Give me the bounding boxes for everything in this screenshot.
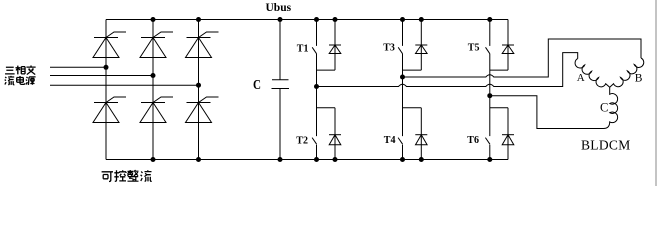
node top bus x=421.3 bbox=[419, 17, 424, 22]
diode antiparallel with T1 bbox=[329, 45, 341, 54]
node T1 midpoint bbox=[314, 84, 319, 89]
node top bus x=198.5 bbox=[196, 17, 201, 22]
node bottom bus x=489.8 bbox=[487, 157, 492, 162]
node phase b junction bbox=[151, 73, 156, 78]
wire phase input c bbox=[50, 84, 199, 86]
node T5 midpoint bbox=[487, 93, 492, 98]
capacitor C bbox=[272, 20, 290, 160]
node phase a junction bbox=[104, 65, 109, 70]
top DC bus bbox=[106, 19, 508, 21]
diode antiparallel with T3 bbox=[415, 45, 427, 54]
wire T3/T4 phase leg bbox=[402, 54, 404, 136]
node bottom bus x=402.5 bbox=[400, 157, 405, 162]
wire T2 diode leg bbox=[334, 108, 336, 160]
wire T6 switch leg lower bbox=[489, 145, 491, 160]
svg-text:Ubus: Ubus bbox=[266, 2, 292, 14]
node top bus x=280 bbox=[278, 17, 283, 22]
thyristor VT6 lower leg 2 bbox=[140, 97, 173, 123]
node top bus x=153 bbox=[151, 17, 156, 22]
wire phase A output with hops over T3,T5 legs bbox=[317, 53, 578, 87]
wire rectifier leg 3 bbox=[198, 20, 200, 160]
node top bus x=335.0 bbox=[333, 17, 338, 22]
inductor winding C bbox=[604, 87, 618, 128]
node phase c junction bbox=[196, 83, 201, 88]
svg-text:B: B bbox=[635, 73, 643, 85]
hanzi 电 bbox=[17, 76, 25, 84]
inductor winding A bbox=[575, 59, 610, 88]
wire T5/T6 phase leg bbox=[489, 54, 491, 136]
diode antiparallel with T6 bbox=[502, 135, 514, 145]
hanzi 控 bbox=[114, 170, 126, 181]
node top bus x=489.8 bbox=[487, 17, 492, 22]
switch T4 lever bbox=[398, 138, 403, 145]
hanzi 源 bbox=[26, 77, 36, 85]
node T3 midpoint bbox=[400, 75, 405, 80]
hanzi 流 bbox=[141, 170, 152, 181]
wire T1 bottom connector bbox=[317, 69, 336, 71]
wire T2 top connector bbox=[317, 107, 336, 109]
hanzi 整 bbox=[128, 170, 139, 181]
wire T5 diode leg bbox=[507, 20, 509, 71]
diode antiparallel with T2 bbox=[329, 135, 341, 145]
bottom DC bus bbox=[106, 159, 508, 161]
switch T1 lever bbox=[312, 47, 316, 54]
thyristor VT2 lower leg 3 bbox=[186, 97, 219, 123]
hanzi 交 bbox=[26, 65, 35, 74]
thyristor VT5 upper leg 3 bbox=[186, 32, 219, 58]
switch T3 lever bbox=[398, 47, 402, 54]
node bottom bus x=316.5 bbox=[314, 157, 319, 162]
node bottom bus x=335.0 bbox=[333, 157, 338, 162]
inductor winding B bbox=[610, 58, 644, 87]
wire T3 bottom connector bbox=[403, 69, 422, 71]
svg-text:T1: T1 bbox=[297, 43, 309, 54]
hanzi 流 bbox=[5, 76, 15, 85]
wire rectifier leg 1 bbox=[105, 20, 107, 160]
node bottom bus x=280 bbox=[278, 157, 283, 162]
wire T3 switch leg upper bbox=[402, 20, 404, 46]
wire T4 diode leg bbox=[420, 108, 422, 160]
hanzi 可 bbox=[102, 172, 113, 182]
svg-text:T6: T6 bbox=[467, 135, 479, 146]
wire phase input a bbox=[50, 66, 106, 68]
switch T5 lever bbox=[486, 47, 490, 54]
thyristor VT3 upper leg 2 bbox=[140, 32, 173, 58]
wire T5 bottom connector bbox=[490, 69, 508, 71]
wire T5 switch leg upper bbox=[489, 20, 491, 46]
wire T6 top connector bbox=[490, 107, 508, 109]
node bottom bus x=198.5 bbox=[196, 157, 201, 162]
svg-text:T4: T4 bbox=[384, 135, 396, 146]
svg-text:BLDCM: BLDCM bbox=[581, 138, 631, 153]
thyristor VT4 lower leg 1 bbox=[93, 97, 126, 123]
wire phase input b bbox=[50, 75, 153, 77]
switch T6 lever bbox=[485, 138, 490, 145]
wire T4 top connector bbox=[403, 107, 422, 109]
svg-text:C: C bbox=[600, 100, 608, 114]
hanzi 三 bbox=[5, 67, 15, 74]
wire T3 diode leg bbox=[420, 20, 422, 71]
diode antiparallel with T4 bbox=[415, 135, 427, 145]
svg-text:T3: T3 bbox=[383, 42, 395, 53]
svg-text:C: C bbox=[253, 77, 261, 92]
wire T1 switch leg upper bbox=[316, 20, 318, 46]
node bottom bus x=421.3 bbox=[419, 157, 424, 162]
wire T4 switch leg lower bbox=[402, 145, 404, 160]
svg-text:A: A bbox=[577, 72, 585, 84]
diode antiparallel with T5 bbox=[502, 45, 514, 54]
node bottom bus x=153 bbox=[151, 157, 156, 162]
thyristor VT1 upper leg 1 bbox=[93, 32, 126, 58]
wire phase B output with hop over T5 leg bbox=[403, 39, 642, 77]
node top bus x=402.5 bbox=[400, 17, 405, 22]
svg-text:T2: T2 bbox=[296, 135, 308, 146]
wire rectifier leg 2 bbox=[152, 20, 154, 160]
switch T2 lever bbox=[312, 138, 317, 145]
wire T1 diode leg bbox=[334, 20, 336, 71]
hanzi 相 bbox=[15, 66, 25, 75]
wire T6 diode leg bbox=[507, 108, 509, 160]
node top bus x=316.5 bbox=[314, 17, 319, 22]
wire phase C output bbox=[490, 96, 604, 129]
wire T2 switch leg lower bbox=[316, 145, 318, 160]
right page edge line bbox=[655, 0, 657, 186]
wire T1/T2 phase leg bbox=[316, 54, 318, 136]
svg-text:T5: T5 bbox=[468, 42, 480, 53]
